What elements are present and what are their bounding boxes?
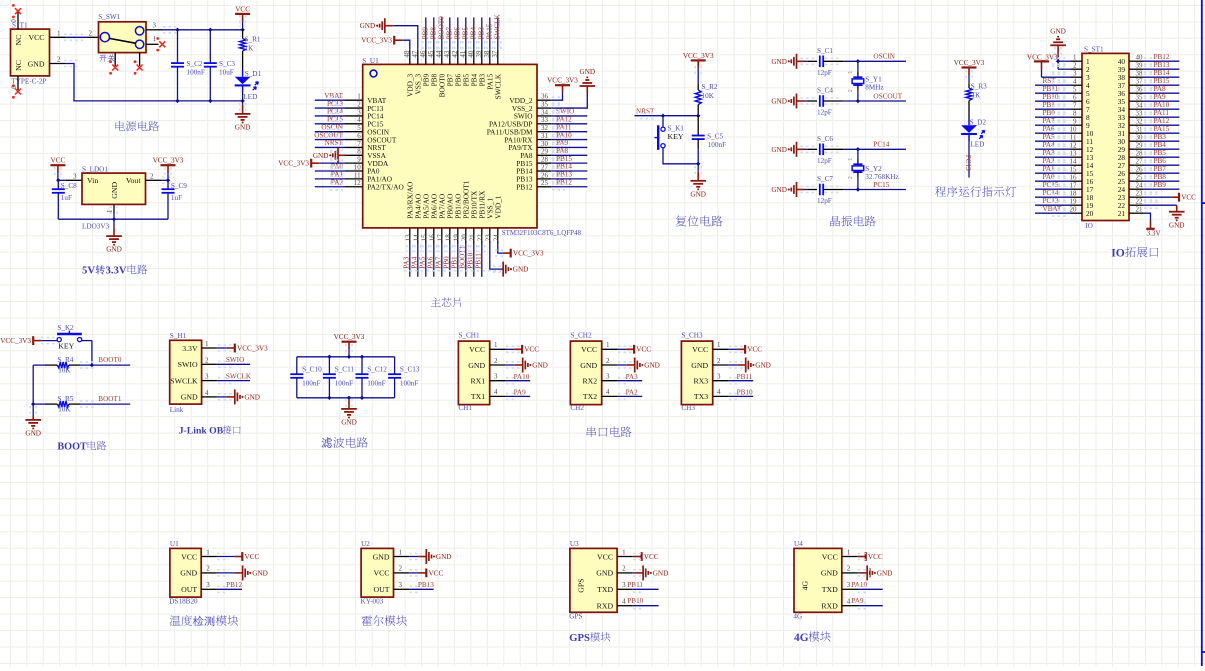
svg-text:1: 1: [205, 340, 209, 348]
svg-text:48: 48: [403, 50, 411, 58]
svg-text:NC: NC: [14, 35, 23, 46]
svg-text:S_R2: S_R2: [702, 83, 718, 91]
svg-text:S_C5: S_C5: [707, 133, 723, 141]
svg-text:11: 11: [1070, 134, 1077, 142]
svg-text:S_R3: S_R3: [971, 82, 987, 90]
svg-text:PA4: PA4: [411, 256, 419, 269]
svg-text:SWIO: SWIO: [178, 360, 198, 369]
svg-text:4: 4: [606, 388, 610, 396]
svg-text:19: 19: [1070, 198, 1078, 206]
svg-text:6: 6: [1073, 94, 1077, 102]
svg-text:1uF: 1uF: [171, 194, 182, 202]
svg-text:14: 14: [1070, 158, 1078, 166]
svg-text:25: 25: [541, 179, 549, 187]
svg-text:2: 2: [206, 565, 210, 573]
svg-text:4: 4: [1073, 78, 1077, 86]
svg-text:21: 21: [1118, 209, 1126, 218]
svg-text:24: 24: [1136, 182, 1144, 190]
svg-text:3: 3: [1073, 70, 1077, 78]
svg-text:PB0: PB0: [443, 256, 451, 269]
svg-text:VCC_3V3: VCC_3V3: [237, 344, 268, 352]
svg-text:CH2: CH2: [570, 404, 584, 412]
svg-text:VCC: VCC: [245, 553, 260, 561]
svg-text:2: 2: [622, 565, 626, 573]
svg-text:PB12: PB12: [226, 581, 242, 589]
svg-text:36: 36: [1136, 86, 1144, 94]
svg-text:CH3: CH3: [681, 404, 695, 412]
svg-text:NC: NC: [14, 60, 23, 71]
svg-text:20: 20: [1086, 209, 1094, 218]
svg-text:PB14: PB14: [1154, 69, 1170, 77]
svg-text:PB13: PB13: [556, 171, 572, 179]
svg-text:GND: GND: [181, 393, 198, 402]
svg-text:SWCLK: SWCLK: [494, 73, 503, 99]
svg-text:OSCOUT: OSCOUT: [314, 131, 343, 139]
svg-text:PB8: PB8: [430, 27, 438, 40]
svg-text:VCC: VCC: [28, 33, 44, 42]
svg-text:PA8: PA8: [1154, 85, 1167, 93]
svg-text:VCC_3V3: VCC_3V3: [153, 157, 184, 165]
svg-text:VCC: VCC: [1181, 194, 1196, 202]
svg-text:PB11: PB11: [475, 253, 483, 269]
svg-text:PB0: PB0: [1043, 109, 1056, 117]
svg-text:S_C9: S_C9: [171, 182, 187, 190]
svg-text:4G: 4G: [793, 613, 802, 621]
svg-text:GND: GND: [513, 266, 529, 274]
svg-text:VCC: VCC: [868, 553, 883, 561]
svg-text:GND: GND: [653, 569, 669, 577]
svg-text:NRST: NRST: [325, 139, 344, 147]
svg-text:PA12: PA12: [556, 116, 572, 124]
svg-text:PB5: PB5: [462, 27, 470, 40]
svg-text:GND: GND: [691, 361, 708, 370]
svg-text:4G: 4G: [794, 632, 809, 644]
svg-text:4: 4: [494, 388, 498, 396]
svg-text:BOOT1: BOOT1: [459, 245, 467, 269]
svg-text:GND: GND: [436, 553, 452, 561]
svg-text:37: 37: [491, 50, 499, 58]
svg-text:PA0: PA0: [1043, 173, 1056, 181]
svg-text:3.3V: 3.3V: [106, 265, 127, 277]
svg-text:26: 26: [541, 171, 549, 179]
svg-text:VCC_3V3: VCC_3V3: [683, 52, 714, 60]
svg-text:38: 38: [1136, 70, 1144, 78]
svg-text:GND: GND: [180, 569, 197, 578]
svg-text:PB1: PB1: [1043, 101, 1056, 109]
svg-text:PB15: PB15: [556, 155, 572, 163]
svg-text:OSCIN: OSCIN: [873, 53, 895, 61]
svg-text:6: 6: [357, 132, 361, 140]
svg-text:27: 27: [541, 163, 549, 171]
svg-text:17: 17: [1070, 182, 1078, 190]
svg-text:20: 20: [1070, 206, 1078, 214]
svg-text:PB13: PB13: [1154, 61, 1170, 69]
svg-text:3: 3: [205, 373, 209, 381]
svg-text:IO: IO: [1111, 246, 1125, 259]
svg-text:VCC: VCC: [636, 346, 651, 354]
svg-text:2: 2: [150, 172, 154, 180]
svg-text:U1: U1: [170, 540, 179, 548]
svg-text:NRST: NRST: [636, 107, 655, 115]
svg-text:10K: 10K: [58, 367, 71, 375]
svg-text:Vout: Vout: [126, 176, 141, 185]
svg-text:IO: IO: [1085, 222, 1093, 230]
svg-text:10K: 10K: [702, 92, 715, 100]
svg-text:VCC: VCC: [644, 553, 659, 561]
svg-text:3: 3: [606, 373, 610, 381]
svg-text:TYPE-C-2P: TYPE-C-2P: [11, 78, 46, 86]
svg-text:32: 32: [1136, 118, 1144, 126]
svg-text:12pF: 12pF: [817, 157, 832, 165]
svg-text:CH1: CH1: [458, 404, 472, 412]
svg-text:1: 1: [57, 29, 61, 37]
svg-text:PB6: PB6: [454, 27, 462, 40]
svg-text:PB4: PB4: [470, 27, 478, 40]
svg-text:PA9: PA9: [514, 389, 527, 397]
svg-text:PB6: PB6: [1154, 157, 1167, 165]
svg-text:4G: 4G: [801, 580, 810, 590]
svg-text:27: 27: [1136, 158, 1144, 166]
svg-text:26: 26: [1136, 166, 1144, 174]
svg-text:GND: GND: [1169, 221, 1185, 229]
svg-text:PA2: PA2: [626, 389, 639, 397]
svg-text:3: 3: [399, 581, 403, 589]
svg-text:PA6: PA6: [427, 256, 435, 269]
svg-text:BOOT: BOOT: [57, 441, 87, 452]
svg-text:SWCLK: SWCLK: [226, 372, 252, 380]
svg-text:PB7: PB7: [1154, 165, 1167, 173]
svg-text:45: 45: [427, 50, 435, 58]
svg-text:10: 10: [354, 163, 362, 171]
svg-text:10: 10: [1070, 126, 1078, 134]
svg-text:4: 4: [357, 116, 361, 124]
svg-text:S_Y2: S_Y2: [865, 165, 882, 173]
svg-text:GND: GND: [313, 152, 329, 160]
svg-text:VCC_3V3: VCC_3V3: [513, 250, 544, 258]
svg-text:2: 2: [1073, 62, 1077, 70]
svg-text:40: 40: [1136, 54, 1144, 62]
svg-text:VCC_3V3: VCC_3V3: [361, 37, 392, 45]
svg-text:LED: LED: [970, 140, 984, 148]
svg-text:VCC: VCC: [469, 345, 485, 354]
svg-text:3.3V: 3.3V: [182, 344, 198, 353]
svg-text:2: 2: [205, 356, 209, 364]
svg-text:S_K2: S_K2: [57, 324, 74, 332]
svg-text:1: 1: [399, 548, 403, 556]
svg-text:KY-003: KY-003: [361, 597, 384, 605]
svg-text:PA2: PA2: [331, 178, 344, 186]
svg-text:OSCOUT: OSCOUT: [873, 92, 902, 100]
svg-text:3: 3: [494, 373, 498, 381]
svg-text:2: 2: [848, 176, 854, 179]
svg-text:12pF: 12pF: [817, 197, 832, 205]
svg-text:39: 39: [1136, 62, 1144, 70]
svg-text:23: 23: [1136, 190, 1144, 198]
svg-text:GND: GND: [360, 22, 376, 30]
svg-text:40: 40: [467, 50, 475, 58]
svg-text:16: 16: [1070, 174, 1078, 182]
svg-text:PA9: PA9: [851, 597, 864, 605]
svg-text:36: 36: [541, 93, 549, 101]
svg-text:S_CH1: S_CH1: [458, 332, 480, 340]
svg-text:KEY: KEY: [58, 341, 74, 350]
svg-text:8: 8: [1073, 110, 1077, 118]
svg-text:42: 42: [451, 50, 459, 58]
svg-text:33: 33: [541, 116, 549, 124]
svg-text:GND: GND: [580, 361, 597, 370]
svg-text:PC14: PC14: [873, 141, 889, 149]
svg-text:GND: GND: [596, 569, 613, 578]
svg-text:GND: GND: [235, 124, 251, 132]
svg-text:S_C1: S_C1: [817, 47, 833, 55]
svg-text:S_C11: S_C11: [335, 365, 355, 373]
svg-text:GND: GND: [644, 362, 660, 370]
svg-text:PB11: PB11: [1043, 85, 1059, 93]
svg-text:100nF: 100nF: [367, 379, 385, 387]
svg-text:S_Y1: S_Y1: [865, 76, 882, 84]
svg-text:PC14: PC14: [1043, 189, 1059, 197]
svg-text:PA10: PA10: [514, 373, 530, 381]
svg-text:3: 3: [357, 108, 361, 116]
svg-text:VCC: VCC: [429, 569, 444, 577]
svg-text:OSCIN: OSCIN: [321, 123, 343, 131]
svg-text:35: 35: [1136, 94, 1144, 102]
svg-text:PB13: PB13: [418, 581, 434, 589]
svg-text:100nF: 100nF: [302, 379, 320, 387]
svg-text:14: 14: [413, 234, 421, 242]
svg-text:PA8: PA8: [556, 147, 569, 155]
svg-text:S_D2: S_D2: [970, 118, 987, 126]
svg-text:7: 7: [1073, 102, 1077, 110]
svg-text:47: 47: [411, 50, 419, 58]
svg-text:GND: GND: [373, 552, 390, 561]
svg-text:PA12: PA12: [1154, 117, 1170, 125]
svg-text:12pF: 12pF: [817, 69, 832, 77]
svg-text:VCC: VCC: [524, 346, 539, 354]
svg-text:PB11: PB11: [627, 581, 643, 589]
svg-text:2: 2: [57, 56, 61, 64]
svg-text:U2: U2: [361, 540, 370, 548]
svg-text:24: 24: [493, 234, 501, 242]
svg-text:GND: GND: [771, 58, 787, 66]
svg-text:VCC: VCC: [597, 552, 613, 561]
svg-text:PB10: PB10: [1043, 93, 1059, 101]
svg-text:5: 5: [357, 124, 361, 132]
svg-text:PB12: PB12: [556, 178, 572, 186]
svg-text:PA5: PA5: [419, 256, 427, 269]
svg-text:2: 2: [89, 29, 93, 37]
svg-text:PA11: PA11: [1154, 109, 1170, 117]
svg-text:PA10: PA10: [556, 131, 572, 139]
svg-text:LDO3V3: LDO3V3: [82, 222, 110, 230]
svg-text:TXD: TXD: [597, 585, 613, 594]
svg-text:1: 1: [847, 548, 851, 556]
svg-text:1: 1: [153, 35, 157, 43]
svg-text:34: 34: [1136, 102, 1144, 110]
svg-text:37: 37: [1136, 78, 1144, 86]
svg-text:100nF: 100nF: [335, 379, 353, 387]
svg-text:GND: GND: [532, 362, 548, 370]
svg-text:TX3: TX3: [694, 392, 708, 401]
svg-text:0: 0: [11, 19, 18, 23]
svg-text:1: 1: [494, 341, 498, 349]
svg-text:PB3: PB3: [1154, 133, 1167, 141]
svg-text:100nF: 100nF: [708, 141, 726, 149]
svg-text:7: 7: [357, 140, 361, 148]
svg-text:PB12: PB12: [516, 182, 533, 191]
svg-text:19: 19: [453, 234, 461, 242]
svg-text:PA2/TX/AO: PA2/TX/AO: [367, 182, 404, 191]
svg-text:GPS: GPS: [569, 633, 590, 644]
svg-text:PA3: PA3: [1043, 149, 1056, 157]
svg-text:VCC_3V3: VCC_3V3: [954, 59, 985, 67]
svg-text:22: 22: [1136, 198, 1144, 206]
svg-text:1: 1: [717, 341, 721, 349]
svg-text:PB15: PB15: [1154, 77, 1170, 85]
svg-text:GND: GND: [771, 146, 787, 154]
svg-text:S_C13: S_C13: [400, 365, 420, 373]
svg-text:25: 25: [1136, 174, 1144, 182]
svg-text:PB3: PB3: [478, 27, 486, 40]
svg-text:U3: U3: [570, 540, 579, 548]
svg-text:GND: GND: [821, 569, 838, 578]
svg-text:8MHz: 8MHz: [865, 84, 883, 92]
svg-text:S_CH3: S_CH3: [681, 332, 703, 340]
svg-text:2: 2: [717, 357, 721, 365]
svg-text:17: 17: [437, 234, 445, 242]
svg-text:9: 9: [357, 156, 361, 164]
svg-text:5V: 5V: [82, 265, 95, 277]
svg-text:PA3: PA3: [403, 256, 411, 269]
svg-text:VDD_1: VDD_1: [494, 195, 503, 218]
svg-text:VCC: VCC: [747, 346, 762, 354]
svg-text:23: 23: [485, 234, 493, 242]
svg-text:BOOT1: BOOT1: [98, 395, 122, 403]
svg-text:3: 3: [153, 22, 157, 30]
svg-text:PA7: PA7: [435, 256, 443, 269]
svg-text:1: 1: [206, 548, 210, 556]
svg-text:41: 41: [459, 50, 467, 58]
svg-text:PA7: PA7: [1043, 117, 1056, 125]
svg-text:30: 30: [1136, 134, 1144, 142]
svg-text:S_C7: S_C7: [817, 175, 833, 183]
svg-text:GND: GND: [110, 182, 119, 199]
svg-text:TXD: TXD: [822, 585, 838, 594]
svg-text:GND: GND: [468, 361, 485, 370]
svg-text:VCC_3V3: VCC_3V3: [547, 77, 578, 85]
svg-text:GND: GND: [877, 569, 893, 577]
svg-text:PC13: PC13: [1043, 197, 1059, 205]
svg-text:VBAT: VBAT: [324, 92, 343, 100]
svg-text:11: 11: [354, 171, 361, 179]
svg-text:30: 30: [541, 140, 549, 148]
svg-text:S_SW1: S_SW1: [98, 13, 120, 21]
svg-text:33: 33: [1136, 110, 1144, 118]
svg-text:U4: U4: [794, 540, 803, 548]
svg-text:9: 9: [1073, 118, 1077, 126]
svg-text:Link: Link: [170, 406, 184, 414]
svg-text:31: 31: [541, 132, 549, 140]
svg-text:PC14: PC14: [327, 108, 343, 116]
svg-text:TX1: TX1: [471, 392, 485, 401]
svg-text:KEY: KEY: [668, 132, 684, 141]
svg-text:PA9: PA9: [556, 139, 569, 147]
svg-text:S_C12: S_C12: [367, 365, 387, 373]
svg-text:10K: 10K: [58, 406, 71, 414]
svg-text:VBAT: VBAT: [1043, 205, 1062, 213]
svg-text:1: 1: [848, 71, 854, 74]
svg-text:RX1: RX1: [470, 377, 485, 386]
svg-text:GND: GND: [1050, 27, 1066, 35]
svg-text:PA15: PA15: [486, 23, 494, 39]
svg-text:3.3V: 3.3V: [1147, 229, 1162, 237]
svg-text:1K: 1K: [972, 91, 982, 99]
svg-text:PA1: PA1: [1043, 165, 1056, 173]
svg-text:GND: GND: [252, 569, 268, 577]
svg-text:GND: GND: [28, 59, 45, 68]
svg-text:100nF: 100nF: [400, 379, 418, 387]
svg-text:S_H1: S_H1: [170, 332, 187, 340]
svg-text:RXD: RXD: [597, 602, 614, 611]
svg-text:GPS: GPS: [569, 613, 582, 621]
svg-text:VCC: VCC: [581, 345, 597, 354]
svg-text:3: 3: [73, 172, 77, 180]
svg-text:VCC: VCC: [822, 552, 838, 561]
svg-text:44: 44: [435, 50, 443, 58]
svg-text:46: 46: [419, 50, 427, 58]
svg-text:LED: LED: [243, 93, 257, 101]
svg-text:12: 12: [1070, 142, 1078, 150]
svg-text:VCC_3V3: VCC_3V3: [278, 160, 309, 168]
svg-text:S_C8: S_C8: [61, 182, 77, 190]
svg-text:VCC: VCC: [373, 569, 389, 578]
svg-text:OUT: OUT: [181, 585, 197, 594]
svg-text:PC15: PC15: [873, 181, 889, 189]
svg-text:8: 8: [357, 148, 361, 156]
svg-text:PA5: PA5: [1043, 133, 1056, 141]
svg-text:S_R1: S_R1: [245, 36, 261, 44]
svg-text:PB9: PB9: [1154, 181, 1167, 189]
svg-text:1: 1: [606, 341, 610, 349]
svg-text:2: 2: [847, 565, 851, 573]
svg-text:16: 16: [429, 234, 437, 242]
svg-text:1K: 1K: [245, 44, 255, 52]
svg-text:2: 2: [494, 357, 498, 365]
svg-text:PB10: PB10: [737, 389, 753, 397]
svg-text:21: 21: [1136, 206, 1144, 214]
svg-text:18: 18: [445, 234, 453, 242]
svg-text:RXD: RXD: [821, 602, 838, 611]
svg-text:18: 18: [1070, 190, 1078, 198]
svg-text:21: 21: [469, 234, 477, 242]
svg-text:PA6: PA6: [1043, 125, 1056, 133]
svg-text:100nF: 100nF: [187, 68, 205, 76]
svg-text:35: 35: [541, 100, 549, 108]
svg-text:S_LDO1: S_LDO1: [82, 165, 108, 173]
svg-text:4: 4: [622, 598, 626, 606]
svg-text:22: 22: [477, 234, 485, 242]
svg-text:SWCLK: SWCLK: [170, 376, 198, 385]
svg-text:15: 15: [1070, 166, 1078, 174]
svg-text:3: 3: [717, 373, 721, 381]
svg-text:GND: GND: [244, 393, 260, 401]
svg-text:PA1: PA1: [331, 171, 344, 179]
svg-text:PB8: PB8: [1154, 173, 1167, 181]
svg-text:29: 29: [541, 148, 549, 156]
svg-text:PA15: PA15: [1154, 125, 1170, 133]
svg-text:28: 28: [541, 156, 549, 164]
svg-text:PA2: PA2: [1043, 157, 1056, 165]
